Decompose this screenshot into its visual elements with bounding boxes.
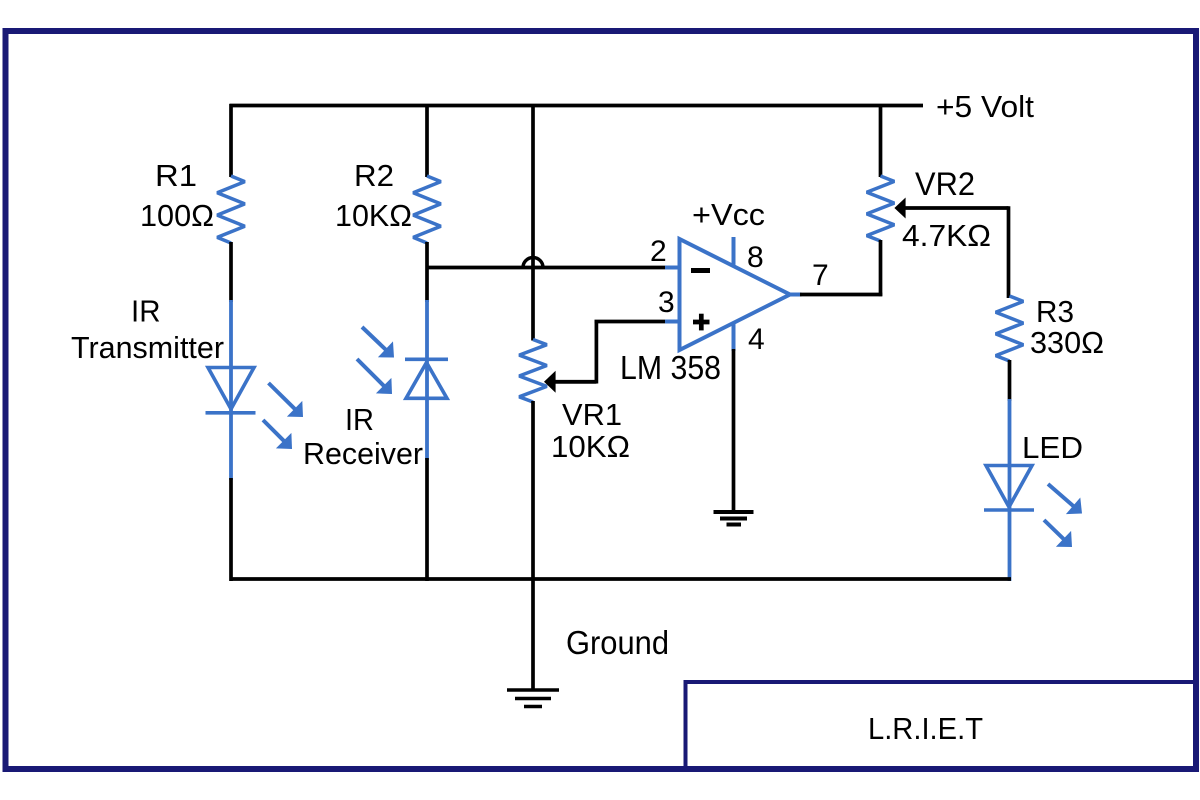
op-amp pin3 stub: [665, 320, 681, 324]
svg-text:IR: IR: [345, 402, 374, 437]
wire center vertical from +5V rail: [531, 104, 535, 341]
wiper arrow VR1: [553, 380, 597, 384]
op-amp U1 triangle: [680, 239, 791, 350]
ground symbol bottom: [507, 688, 559, 692]
wire R2 bottom: [425, 242, 429, 302]
svg-text:LED: LED: [1022, 430, 1083, 465]
resistor R2: [413, 176, 441, 243]
LED emission arrow 1: [1048, 484, 1075, 508]
svg-text:4: 4: [748, 323, 765, 356]
svg-text:2: 2: [650, 235, 667, 268]
wire pin2 horizontal from R2 junction: [427, 266, 667, 270]
wire wiper VR2 vertical down: [1007, 206, 1011, 298]
svg-text:8: 8: [747, 241, 764, 274]
svg-text:10KΩ: 10KΩ: [335, 198, 412, 233]
diode LED: [986, 466, 1032, 508]
op-amp output stub: [789, 293, 802, 297]
transmitter emission arrow 1: [269, 383, 297, 411]
svg-text:Transmitter: Transmitter: [71, 330, 224, 365]
op-amp pin2 stub: [665, 266, 681, 270]
op-amp pin4 stub: [732, 322, 736, 351]
diode D2 IR receiver: [405, 357, 448, 361]
wire to LED (blue): [1008, 399, 1012, 581]
resistor R1: [217, 176, 245, 243]
svg-text:VR1: VR1: [562, 397, 622, 432]
svg-text:+5 Volt: +5 Volt: [936, 89, 1034, 124]
op-amp Vcc stub pin8: [732, 237, 736, 267]
diode D1 IR transmitter: [208, 368, 254, 410]
wire VR1 bottom to ground: [531, 401, 535, 690]
wire top +5V rail: [230, 104, 924, 108]
svg-text:100Ω: 100Ω: [140, 198, 214, 233]
title box L.R.I.E.T: [686, 682, 1197, 769]
svg-text:10KΩ: 10KΩ: [551, 429, 630, 464]
svg-text:+Vcc: +Vcc: [692, 197, 765, 232]
receiver incoming arrow 2: [357, 359, 386, 388]
svg-text:Ground: Ground: [566, 624, 669, 661]
svg-text:R1: R1: [155, 158, 197, 193]
wire crossover hop at pin2 wire: [523, 258, 543, 268]
wire receiver to bottom rail: [425, 458, 429, 581]
wire R1 top: [229, 104, 233, 177]
svg-text:3: 3: [658, 286, 675, 319]
wire op-amp output to VR2 branch: [800, 293, 882, 297]
wiper arrow VR2: [903, 206, 1009, 210]
wire R1 bottom: [229, 242, 233, 302]
svg-text:330Ω: 330Ω: [1030, 325, 1104, 360]
svg-text:VR2: VR2: [915, 166, 975, 202]
svg-text:L.R.I.E.T: L.R.I.E.T: [868, 711, 983, 746]
wire pin3 horizontal: [595, 320, 668, 324]
svg-text:IR: IR: [131, 294, 161, 329]
svg-text:R2: R2: [354, 158, 394, 193]
wire transmitter to bottom rail: [229, 478, 233, 581]
receiver incoming arrow 1: [362, 327, 388, 351]
wire pin4 to ground: [732, 349, 736, 511]
wire bottom ground rail: [230, 577, 1012, 581]
wire R3 bottom: [1008, 360, 1012, 401]
svg-text:LM 358: LM 358: [620, 349, 721, 386]
ground symbol op-amp: [714, 510, 754, 514]
wire wiper vertical: [595, 322, 599, 384]
resistor R3: [996, 296, 1024, 361]
wire to IR transmitter (blue): [229, 300, 233, 480]
svg-text:R3: R3: [1036, 294, 1074, 329]
svg-text:7: 7: [812, 259, 829, 292]
svg-text:Receiver: Receiver: [303, 436, 423, 471]
op-amp plus sign: [693, 320, 710, 325]
wire VR2 top: [879, 104, 883, 177]
potentiometer VR2: [867, 176, 895, 241]
potentiometer VR1: [519, 340, 547, 403]
LED emission arrow 2: [1044, 520, 1066, 541]
transmitter emission arrow 2: [263, 420, 286, 443]
wire R2 top: [425, 104, 429, 177]
wire to IR receiver (blue): [425, 300, 429, 460]
wire VR2 bottom to output: [879, 240, 883, 296]
op-amp minus sign: [691, 268, 710, 273]
svg-text:4.7KΩ: 4.7KΩ: [902, 218, 991, 253]
